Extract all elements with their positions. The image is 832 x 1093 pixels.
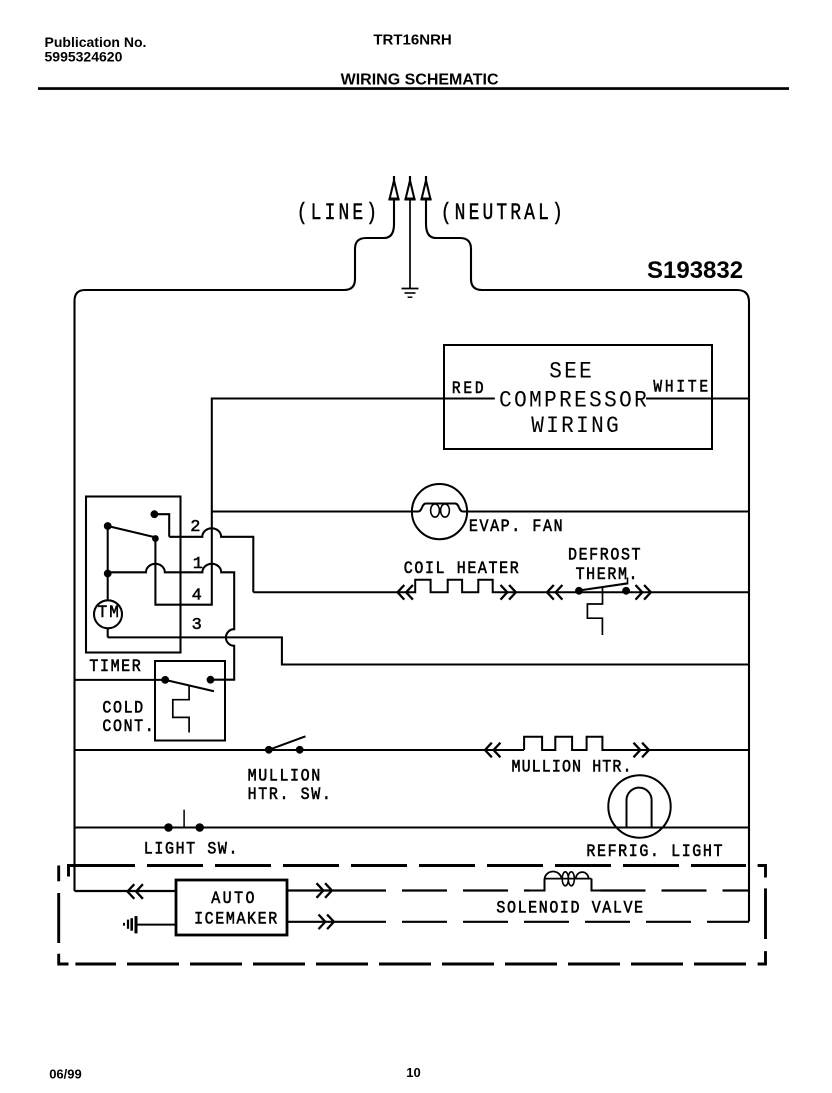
svg-text:WIRING SCHEMATIC: WIRING SCHEMATIC: [341, 71, 499, 88]
svg-text:4: 4: [192, 586, 202, 605]
svg-text:SOLENOID VALVE: SOLENOID VALVE: [496, 897, 644, 918]
svg-text:S193832: S193832: [647, 257, 743, 284]
svg-text:SEE: SEE: [549, 358, 594, 385]
svg-text:TIMER: TIMER: [89, 656, 142, 677]
svg-text:LIGHT SW.: LIGHT SW.: [144, 838, 239, 859]
svg-text:WHITE: WHITE: [653, 377, 710, 397]
svg-text:REFRIG. LIGHT: REFRIG. LIGHT: [586, 841, 724, 862]
svg-text:1: 1: [193, 554, 203, 573]
svg-text:(LINE): (LINE): [297, 201, 380, 227]
svg-text:5995324620: 5995324620: [45, 49, 123, 65]
svg-text:MULLION: MULLION: [248, 765, 322, 786]
svg-text:DEFROST: DEFROST: [568, 544, 642, 565]
svg-text:EVAP. FAN: EVAP. FAN: [469, 516, 564, 537]
svg-text:WIRING: WIRING: [531, 412, 621, 439]
svg-text:ICEMAKER: ICEMAKER: [194, 908, 279, 929]
svg-text:06/99: 06/99: [49, 1066, 82, 1081]
svg-text:TM: TM: [98, 603, 121, 623]
svg-text:AUTO: AUTO: [211, 888, 257, 909]
svg-text:10: 10: [406, 1065, 420, 1080]
svg-text:CONT.: CONT.: [102, 716, 155, 737]
svg-text:3: 3: [192, 615, 202, 634]
svg-text:RED: RED: [452, 379, 486, 399]
svg-text:COMPRESSOR: COMPRESSOR: [499, 386, 649, 413]
svg-text:HTR. SW.: HTR. SW.: [248, 784, 333, 805]
svg-text:Publication No.: Publication No.: [45, 34, 147, 50]
svg-text:TRT16NRH: TRT16NRH: [373, 32, 451, 49]
svg-text:THERM.: THERM.: [576, 564, 640, 585]
svg-text:COLD: COLD: [102, 697, 144, 718]
svg-text:MULLION HTR.: MULLION HTR.: [512, 756, 633, 777]
svg-text:2: 2: [190, 517, 200, 536]
svg-text:(NEUTRAL): (NEUTRAL): [441, 201, 566, 227]
svg-text:COIL HEATER: COIL HEATER: [404, 558, 520, 579]
